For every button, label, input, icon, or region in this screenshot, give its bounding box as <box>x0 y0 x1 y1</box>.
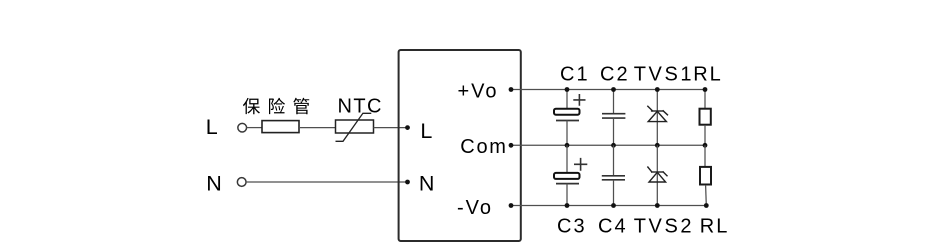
wire RL2 top lead <box>704 145 706 167</box>
wire C4 top lead <box>613 145 615 176</box>
wire C1 top lead <box>566 90 568 110</box>
wire fuse to NTC <box>299 127 336 129</box>
svg-text:TVS1: TVS1 <box>634 63 694 85</box>
node C3 bottom junction <box>565 203 570 208</box>
node RL2 bottom junction <box>704 203 709 208</box>
svg-text:L: L <box>420 119 432 143</box>
wire C4 bottom lead <box>613 180 615 206</box>
wire N terminal to module pin N <box>246 181 408 183</box>
wire C2 top lead <box>613 90 615 114</box>
svg-text:RL: RL <box>693 63 723 85</box>
capacitor C3 electrolytic <box>554 158 587 184</box>
wire TVS1 lead <box>656 90 658 146</box>
thermistor NTC <box>336 113 374 141</box>
node L input terminal <box>238 123 247 132</box>
svg-text:Com: Com <box>460 136 507 158</box>
node C1 top junction <box>565 87 570 92</box>
module U1 AC/DC power module box <box>399 50 521 241</box>
node +Vo pin dot <box>509 87 514 92</box>
diode TVS1 <box>647 106 668 122</box>
svg-text:N: N <box>206 172 222 196</box>
svg-text:RL: RL <box>700 215 730 237</box>
wire Com rail <box>511 144 705 146</box>
node module pin N <box>405 180 410 185</box>
wire C3 bottom lead <box>566 184 568 206</box>
capacitor C4 <box>602 176 625 180</box>
node C2 top junction <box>611 87 616 92</box>
wire C2 bottom lead <box>613 118 615 145</box>
svg-text:C3: C3 <box>557 215 587 237</box>
svg-text:L: L <box>206 115 218 139</box>
svg-text:-Vo: -Vo <box>457 197 493 219</box>
node Com pin dot <box>509 143 514 148</box>
wire TVS2 lead <box>656 145 658 205</box>
svg-text:C1: C1 <box>560 63 590 85</box>
svg-text:NTC: NTC <box>338 96 383 118</box>
resistor RL1 <box>700 109 711 125</box>
wire RL2 bottom lead <box>705 185 708 206</box>
wire L terminal to fuse <box>246 127 262 129</box>
node RL1 top junction <box>703 87 708 92</box>
resistor RL2 <box>700 167 711 185</box>
label 保险管 (fuse) <box>243 98 309 115</box>
svg-text:+Vo: +Vo <box>458 80 499 102</box>
capacitor C1 electrolytic <box>554 94 586 121</box>
fuse F1 <box>262 121 299 133</box>
node N input terminal <box>237 178 246 187</box>
wire -Vo rail <box>511 205 707 207</box>
node C2 bottom junction <box>611 143 616 148</box>
node TVS1 bottom junction <box>655 143 660 148</box>
node C1 bottom junction <box>565 143 570 148</box>
node TVS1 top junction <box>655 87 660 92</box>
svg-text:C4: C4 <box>598 215 628 237</box>
wire NTC to module pin L <box>374 127 408 129</box>
svg-text:C2: C2 <box>600 63 630 85</box>
svg-text:N: N <box>419 172 435 196</box>
svg-text:TVS2: TVS2 <box>634 215 694 237</box>
node -Vo pin dot <box>509 203 514 208</box>
wire RL1 bottom lead <box>704 125 706 145</box>
diode TVS2 <box>647 167 667 183</box>
node TVS2 bottom junction <box>655 203 660 208</box>
wire RL1 top lead <box>704 90 706 109</box>
wire C1 bottom lead <box>566 121 568 146</box>
wire +Vo rail <box>511 89 705 91</box>
wire C3 top lead <box>566 145 568 173</box>
node RL1 bottom junction <box>703 143 708 148</box>
node module pin L <box>405 125 410 130</box>
node C4 bottom junction <box>611 203 616 208</box>
capacitor C2 <box>602 114 625 118</box>
